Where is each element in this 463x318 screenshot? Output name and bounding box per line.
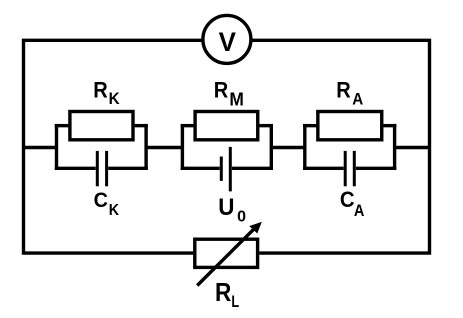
svg-text:A: A <box>352 90 363 108</box>
battery U0 long plate <box>229 147 232 192</box>
wire: block 1 upper branch right stub <box>133 124 148 127</box>
svg-text:M: M <box>229 90 244 110</box>
wire: middle row, block 2 to block 3 <box>271 146 305 149</box>
wire: block 2 upper branch right stub <box>258 124 273 127</box>
wire: block 3 upper branch left stub <box>303 124 318 127</box>
wire: middle row, block 1 to block 2 <box>146 146 182 149</box>
resistor R_L body (variable, on bottom wire) <box>195 239 258 267</box>
capacitor C_K left plate <box>96 151 99 186</box>
node: block 2 right junction bar <box>270 124 273 170</box>
svg-text:L: L <box>231 292 239 311</box>
svg-text:K: K <box>109 90 120 108</box>
wire: block 3 lower branch left <box>303 167 344 170</box>
svg-text:A: A <box>354 202 365 220</box>
wire: block 1 lower branch left <box>55 167 96 170</box>
resistor R_M body <box>195 112 258 140</box>
wire: block 3 lower branch right <box>356 167 396 170</box>
node: block 3 left junction bar <box>303 124 306 170</box>
capacitor C_K right plate <box>105 151 108 186</box>
wire: block 2 lower branch left <box>181 167 220 170</box>
svg-text:R: R <box>93 77 108 102</box>
svg-text:R: R <box>214 77 229 102</box>
svg-text:R: R <box>215 277 231 307</box>
battery U0 short plate <box>220 157 223 181</box>
wire: block 1 upper branch left stub <box>55 124 70 127</box>
svg-text:K: K <box>109 202 120 219</box>
resistor R_A body <box>318 112 382 140</box>
voltmeter V meter circle <box>203 15 251 63</box>
wire: middle row, block 3 to right edge <box>395 146 430 149</box>
node: block 3 right junction bar <box>393 124 396 170</box>
svg-text:C: C <box>94 188 108 212</box>
capacitor C_A right plate <box>353 151 356 186</box>
svg-text:R: R <box>336 77 351 102</box>
wire: top-left + left vertical + bottom-left <box>24 40 204 253</box>
wire: top-right + right vertical + bottom-right <box>251 40 430 253</box>
node: block 1 left junction bar <box>55 124 58 170</box>
svg-text:C: C <box>340 187 355 212</box>
resistor R_K body <box>70 112 133 140</box>
wire: middle row, left edge to block 1 <box>24 146 57 149</box>
svg-text:U: U <box>218 194 234 221</box>
node: block 1 right junction bar <box>144 124 147 170</box>
wire: block 1 lower branch right <box>108 167 148 170</box>
node: block 2 left junction bar <box>181 124 184 170</box>
variable resistor arrow head <box>249 222 262 234</box>
variable resistor arrow shaft <box>197 228 255 286</box>
wire: block 2 upper branch left stub <box>181 124 195 127</box>
svg-text:V: V <box>219 27 236 57</box>
svg-text:0: 0 <box>237 209 246 226</box>
wire: block 2 lower branch right <box>232 167 273 170</box>
capacitor C_A left plate <box>344 151 347 186</box>
wire: block 3 upper branch right stub <box>382 124 397 127</box>
